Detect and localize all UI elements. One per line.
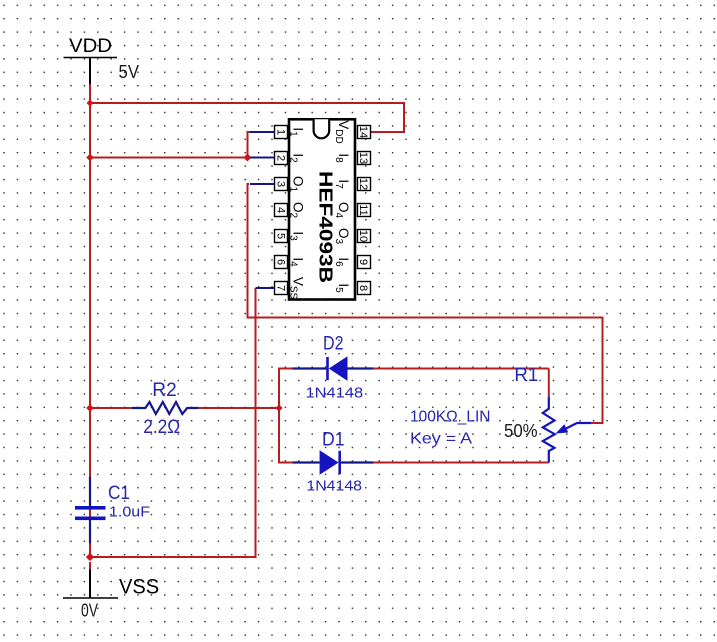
svg-text:10: 10 bbox=[357, 230, 369, 242]
svg-text:12: 12 bbox=[357, 178, 369, 190]
svg-text:1.0uF: 1.0uF bbox=[109, 503, 150, 520]
pin box 8 bbox=[357, 282, 371, 295]
svg-text:R2: R2 bbox=[152, 380, 176, 401]
svg-text:VSS: VSS bbox=[119, 576, 159, 599]
junction (247,157.5) bbox=[243, 154, 251, 162]
wire D1 to R1 bottom bbox=[374, 462, 549, 464]
wire R2 left red bbox=[90, 407, 132, 409]
wire pin3 to potentiometer wiper bbox=[248, 184, 603, 423]
svg-text:D1: D1 bbox=[322, 429, 345, 450]
svg-text:6: 6 bbox=[275, 259, 287, 265]
wire VDD stem red bbox=[89, 84, 91, 103]
svg-text:VDD: VDD bbox=[69, 35, 112, 57]
pin box 6 bbox=[275, 256, 288, 269]
op IC U1 HEF4093B body bbox=[289, 119, 355, 299]
wire R2 right red bbox=[199, 407, 280, 409]
svg-text:2.2Ω: 2.2Ω bbox=[143, 417, 180, 438]
diode D1 bbox=[293, 450, 374, 474]
svg-text:7: 7 bbox=[275, 285, 287, 291]
svg-text:9: 9 bbox=[357, 259, 369, 265]
wire D2 to R1 top bbox=[374, 368, 549, 370]
pin 3 lead bbox=[250, 183, 275, 185]
svg-text:8: 8 bbox=[357, 285, 369, 291]
svg-text:13: 13 bbox=[357, 152, 369, 164]
svg-text:4: 4 bbox=[275, 207, 287, 213]
svg-text:1: 1 bbox=[275, 129, 287, 135]
svg-text:D2: D2 bbox=[323, 334, 344, 355]
wire left vertical bus x=90 bbox=[89, 103, 91, 557]
junction (279,408) bbox=[275, 404, 282, 411]
pin box 12 bbox=[357, 178, 371, 191]
svg-text:C1: C1 bbox=[108, 483, 130, 504]
resistor R2 bbox=[132, 402, 199, 414]
svg-text:1N4148: 1N4148 bbox=[306, 477, 362, 494]
wire diode loop left riser up to D2 bbox=[279, 369, 293, 409]
diode D2 bbox=[293, 356, 374, 381]
capacitor C1 bbox=[75, 477, 106, 544]
svg-text:0V: 0V bbox=[81, 601, 98, 621]
svg-text:R1: R1 bbox=[514, 365, 538, 386]
wire pin1 drop to junction bbox=[248, 132, 252, 158]
junction (90,408) bbox=[86, 404, 94, 412]
svg-text:Key = A: Key = A bbox=[410, 431, 472, 448]
pin box 2 bbox=[275, 152, 288, 165]
ground VSS bbox=[63, 562, 159, 599]
junction (90,157.5) bbox=[86, 154, 94, 162]
svg-text:HEF4093B: HEF4093B bbox=[316, 171, 336, 283]
junction at VDD node (90,103) bbox=[87, 100, 94, 107]
pin box 4 bbox=[275, 204, 288, 217]
pin 1 lead bbox=[250, 131, 275, 133]
svg-text:11: 11 bbox=[357, 204, 369, 215]
wire diode loop left riser down to D1 bbox=[279, 408, 293, 463]
wire pin2 row horizontal bbox=[90, 157, 247, 159]
pin box 3 bbox=[275, 178, 288, 191]
svg-text:100KΩ_LIN: 100KΩ_LIN bbox=[410, 409, 491, 426]
wire top horizontal VDD to IC pin 14 bbox=[90, 103, 404, 132]
svg-text:5: 5 bbox=[275, 233, 287, 239]
pin box 14 bbox=[357, 126, 371, 139]
pin box 9 bbox=[357, 256, 371, 269]
pin box 11 bbox=[357, 204, 371, 217]
pin 7 lead bbox=[256, 287, 275, 289]
wire pin7 to ground rail bbox=[90, 288, 256, 557]
pin box 7 bbox=[275, 282, 288, 295]
svg-text:3: 3 bbox=[275, 181, 287, 187]
svg-text:50%: 50% bbox=[504, 421, 538, 441]
pin box 10 bbox=[357, 230, 371, 243]
pin box 1 bbox=[275, 126, 288, 139]
wire R1 top lead red bbox=[548, 369, 550, 397]
svg-text:14: 14 bbox=[357, 126, 369, 138]
potentiometer R1 bbox=[543, 397, 591, 463]
pin 2 lead bbox=[250, 157, 275, 159]
svg-text:1N4148: 1N4148 bbox=[306, 384, 364, 401]
pin box 13 bbox=[357, 152, 371, 165]
svg-text:2: 2 bbox=[275, 155, 287, 161]
svg-text:5V: 5V bbox=[119, 62, 140, 82]
power symbol VDD bbox=[64, 35, 118, 84]
pin box 5 bbox=[275, 230, 288, 243]
junction (90,557) bbox=[86, 553, 94, 561]
